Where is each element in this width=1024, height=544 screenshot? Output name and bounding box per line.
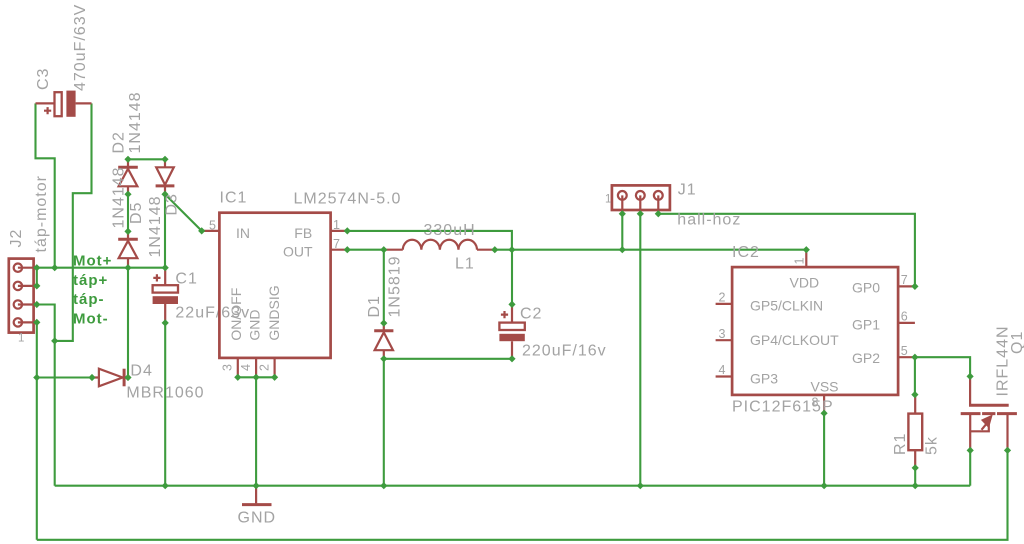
junction IC2 GP0 [911,283,918,290]
diode D5 1N4148 [110,166,145,267]
svg-text:D1: D1 [366,295,383,317]
junction Q1 gate [967,373,974,380]
svg-text:GP2: GP2 [852,350,880,366]
junction C1 bottom [162,319,169,326]
svg-text:R1: R1 [892,433,909,455]
svg-text:D4: D4 [130,363,152,380]
svg-text:Mot-: Mot- [73,311,109,328]
capacitor C1 22uF/63v [153,268,251,323]
junction J2 pin1 [33,264,40,271]
junction IC1 pin4 [253,374,260,381]
IC2 pin 6 GP1 [898,322,915,324]
junction C2 top [508,301,515,308]
svg-text:OUT: OUT [283,243,313,259]
svg-text:táp-motor: táp-motor [33,175,50,252]
svg-text:Q1: Q1 [1009,331,1024,354]
junction Q1 drain [1004,447,1011,454]
junction J2 pin2 [33,282,40,289]
junction D5 cathode [124,228,131,235]
wire bottom Mot- rail to Q1 drain [37,450,1008,539]
inductor L1 330uH [384,222,495,273]
svg-text:L1: L1 [455,256,475,273]
wire J1 pin3 to IC2 GP0 [658,214,915,287]
wire J2 pin1-pin2 link [36,268,38,286]
junction ground rail VSS [821,482,828,489]
junction L1 right pin [491,246,498,253]
svg-text:VDD: VDD [790,275,820,291]
svg-text:táp+: táp+ [73,272,108,289]
wire C2 top [511,250,513,305]
IC2 PIC12F615P [716,244,915,416]
wire IC1 bottom pins tie [238,376,275,378]
wire ground rail [55,485,971,487]
svg-text:4: 4 [719,363,726,377]
wire IC1 OUT to D1 node [347,249,384,251]
svg-text:ON/OFF: ON/OFF [228,288,244,341]
transistor Q1 IRFL44N MOSFET [961,325,1024,450]
wire R1 bottom to ground rail [914,468,916,486]
wire D3 cathode down to Mot+/C1 node [164,194,166,268]
wire IC2 GP2 down to R1 [914,357,916,394]
svg-text:C2: C2 [520,306,542,323]
IC2 pin 4 GP3 [716,375,733,377]
junction ground rail J1-2 [637,482,644,489]
IC1 pin 7 OUT [331,249,348,251]
svg-text:1: 1 [605,194,611,206]
junction D3 anode [161,156,168,163]
wire +5V rail L1 to IC2 VDD [495,249,807,251]
junction J2 pin3 [33,301,40,308]
svg-text:7: 7 [333,237,340,251]
connector J2 [8,175,50,344]
junction J1 pin1 [619,210,626,217]
IC1 pin 5 IN [202,230,220,232]
junction IC1 pin3 [234,374,241,381]
svg-text:LM2574N-5.0: LM2574N-5.0 [294,191,402,208]
wire D4 cathode up to Mot+ [127,268,129,378]
svg-text:220uF/16v: 220uF/16v [522,343,607,360]
IC2 pin 3 GP4/CLKOUT [716,339,733,341]
svg-text:5: 5 [209,219,216,233]
svg-text:GND: GND [238,510,277,527]
svg-text:C1: C1 [175,271,197,288]
svg-text:1N4148: 1N4148 [127,91,144,153]
svg-text:6: 6 [901,310,908,324]
svg-text:330uH: 330uH [424,222,476,239]
svg-text:3: 3 [221,364,235,371]
IC2 pin 8 VSS [823,395,825,413]
svg-text:4: 4 [239,364,253,371]
svg-text:1: 1 [333,218,340,232]
junction J1 pin2 [637,210,644,217]
svg-text:GNDSIG: GNDSIG [266,285,282,340]
svg-text:GP5/CLKIN: GP5/CLKIN [750,298,823,314]
svg-text:1: 1 [18,333,24,345]
junction Q1 source [967,447,974,454]
svg-text:J1: J1 [678,182,697,199]
junction Mot- D4 branch [33,374,40,381]
junction R1 top [911,391,918,398]
wire C1 bottom to ground rail [164,323,166,486]
svg-text:1N4148: 1N4148 [110,166,127,228]
svg-text:1: 1 [793,258,807,265]
svg-text:3: 3 [719,327,726,341]
wire D1 top [383,250,385,323]
wire D1 anode to ground rail [383,359,385,486]
svg-text:7: 7 [901,273,908,287]
junction D5 anode Mot+ [124,264,131,271]
ground symbol GND [238,486,277,527]
junction J1 pin3 [655,210,662,217]
wire D5 cathode to D2 anode [127,194,129,231]
svg-text:GP1: GP1 [852,317,880,333]
junction IC2 GP2 [911,354,918,361]
diode D4 MBR1060 [92,363,205,402]
junction ground rail IC1 [253,482,260,489]
wire IC2 VSS down to ground rail [823,413,825,486]
junction D3 cathode [161,191,168,198]
svg-text:5: 5 [901,344,908,358]
svg-text:GP0: GP0 [852,280,880,296]
junction J2 pin4 [33,319,40,326]
svg-text:MBR1060: MBR1060 [126,385,204,402]
junction IC1 FB pin [344,227,351,234]
connector J1 hall-hoz [605,182,741,229]
svg-text:GND: GND [247,309,263,340]
wire C3 left to Mot+ rail [36,103,55,267]
wire Mot+ rail [37,267,165,269]
diode D2 1N4148 [110,91,144,194]
svg-text:D2: D2 [110,131,127,153]
junction IC1 OUT pin [344,246,351,253]
wire D1 anode to C2 bottom [384,358,512,360]
svg-text:GP4/CLKOUT: GP4/CLKOUT [750,332,839,348]
diode D3 1N4148 [147,159,180,257]
junction C2 bottom [508,355,515,362]
junction D4 anode [88,374,95,381]
junction D1 cathode [380,320,387,327]
junction ground rail R1 [912,482,919,489]
wire D2 cathode to D3 anode [128,158,165,160]
capacitor C3 470uF/63V [35,4,92,117]
svg-text:D5: D5 [128,202,145,224]
IC2 pin 1 VDD [805,250,807,267]
svg-text:IN: IN [236,225,250,241]
wire J2 pin4 Mot- down [36,322,38,539]
wire Q1 source down to ground rail [969,450,971,485]
IC1 LM2574N-5.0 [202,190,402,378]
junction D4 cathode [124,374,131,381]
svg-text:PIC12F615P: PIC12F615P [732,399,834,416]
junction D2 anode [124,191,131,198]
wire IC2 GP2 to Q1 gate [915,357,970,376]
wire C3 right to tap- net [55,103,92,341]
junction IC1 IN pin [198,227,205,234]
svg-text:470uF/63V: 470uF/63V [72,4,89,91]
svg-text:C3: C3 [35,68,52,90]
svg-text:IC2: IC2 [732,244,760,261]
svg-text:J2: J2 [8,229,25,248]
junction C3-left x Mot+ [51,264,58,271]
wire IC1 GND down to ground rail [255,377,257,485]
wire Mot- to D4 anode [37,376,92,378]
resistor R1 5k [892,395,941,468]
junction D1 anode [380,355,387,362]
IC2 pin 2 GP5/CLKIN [716,303,733,305]
junction IC2 VDD [803,246,810,253]
IC1 pin 1 FB [331,230,348,232]
junction IC2 VSS [821,410,828,417]
IC1 pins 3 4 2 bottom [238,358,275,377]
diode D1 1N5819 [366,255,404,358]
junction R1 bottom [912,464,919,471]
svg-text:5k: 5k [924,436,941,455]
junction J1 pin1 x 5V rail [619,246,626,253]
svg-text:hall-hoz: hall-hoz [677,212,741,229]
junction D2 cathode [124,156,131,163]
junction ground rail D1 [380,482,387,489]
svg-text:1N4148: 1N4148 [147,195,164,257]
wire J1 pin2 down to ground rail [639,214,641,486]
wire D3 to IC1 IN diagonal [165,194,202,231]
junction tap- C3-right [51,337,58,344]
junction C1 top Mot+ [162,264,169,271]
capacitor C2 220uF/16v [499,304,606,359]
svg-text:GP3: GP3 [750,371,778,387]
svg-text:2: 2 [719,291,726,305]
wire J2 pin3 tap- down to ground rail [37,305,55,486]
svg-text:táp-: táp- [73,291,105,308]
svg-text:Mot+: Mot+ [73,253,112,270]
junction IC1 pin2 [271,374,278,381]
svg-text:FB: FB [294,225,312,241]
wire IC1 FB to output node [347,231,512,250]
svg-text:VSS: VSS [811,379,839,395]
svg-text:1N5819: 1N5819 [387,255,404,317]
IC2 pin 5 GP2 [898,356,915,358]
IC2 pin 7 GP0 [898,285,915,287]
junction D1 switch node [380,246,387,253]
svg-text:IC1: IC1 [220,190,248,207]
junction FB output node [508,246,515,253]
wire J1 pin1 down to +5V rail [621,214,623,250]
svg-text:2: 2 [257,364,271,371]
junction ground rail C1 [162,482,169,489]
